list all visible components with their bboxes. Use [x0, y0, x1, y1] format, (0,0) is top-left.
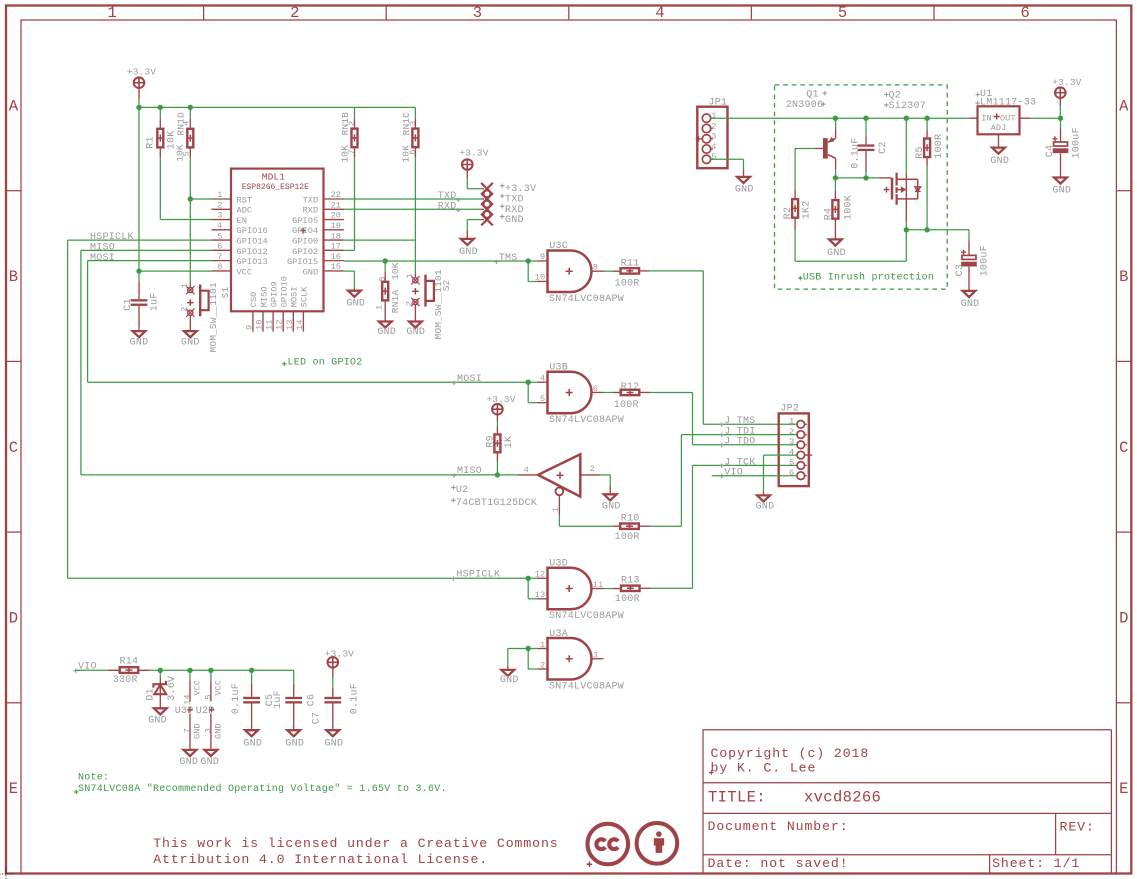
- svg-text:3: 3: [217, 211, 222, 221]
- svg-text:Copyright (c) 2018: Copyright (c) 2018: [711, 746, 870, 761]
- svg-text:12: 12: [535, 570, 545, 580]
- svg-text:100R: 100R: [615, 278, 640, 289]
- svg-text:1: 1: [107, 4, 117, 22]
- svg-text:MOSI: MOSI: [290, 286, 300, 307]
- ground below JP2: [757, 495, 770, 501]
- wire U1 OUT to 3.3V node: [1020, 117, 1031, 119]
- svg-text:SN74LVC08APW: SN74LVC08APW: [549, 415, 624, 426]
- op-amp U3D AND gate SN74LVC08APW: [537, 577, 548, 579]
- svg-text:HSPICLK: HSPICLK: [456, 570, 500, 581]
- resistor R5 100R: [926, 118, 928, 130]
- connector JP1 pin 5: [702, 155, 710, 163]
- svg-text:11: 11: [593, 580, 603, 590]
- svg-text:5: 5: [204, 694, 214, 699]
- svg-text:GND: GND: [214, 723, 224, 739]
- frame row ticks right: [1116, 190, 1131, 192]
- ground below pin15: [348, 291, 361, 297]
- svg-text:R12: R12: [621, 382, 640, 393]
- title block border: [703, 730, 1111, 874]
- svg-text:GND: GND: [459, 247, 478, 258]
- svg-text:S1: S1: [220, 286, 231, 298]
- svg-text:GND: GND: [179, 757, 198, 768]
- resistor RN1C 10K: [414, 107, 416, 119]
- connector JP2 pin 1: [797, 421, 805, 429]
- svg-text:EN: EN: [237, 216, 247, 226]
- svg-text:GND: GND: [500, 675, 519, 686]
- svg-text:GND: GND: [990, 156, 1009, 167]
- diode D1 zener 3.6V: [159, 670, 161, 678]
- svg-text:1uF: 1uF: [273, 690, 284, 709]
- svg-text:MISO: MISO: [457, 466, 482, 477]
- wire Q2 source from rail: [905, 118, 907, 174]
- svg-text:RST: RST: [237, 195, 253, 205]
- svg-text:U3A: U3A: [549, 629, 568, 640]
- svg-text:7: 7: [217, 252, 222, 262]
- label J_TCK: [720, 464, 724, 468]
- svg-text:R10: R10: [621, 514, 640, 525]
- wire 5V rail from JP1: [710, 117, 970, 119]
- svg-text:4: 4: [182, 121, 192, 126]
- svg-text:GND: GND: [200, 757, 219, 768]
- svg-text:USB Inrush protection: USB Inrush protection: [803, 271, 934, 283]
- capacitor C1 1uF: [138, 281, 140, 299]
- svg-text:1: 1: [540, 640, 545, 650]
- svg-text:4: 4: [540, 373, 545, 383]
- svg-text:SN74LVC08A "Recommended Operat: SN74LVC08A "Recommended Operating Voltag…: [78, 783, 447, 795]
- connector JP1 pin 1: [702, 114, 710, 122]
- svg-text:1: 1: [375, 305, 385, 310]
- svg-text:U3D: U3D: [549, 559, 568, 570]
- ground below C6: [287, 730, 300, 736]
- svg-text:GND: GND: [961, 299, 980, 310]
- svg-text:IN: IN: [981, 114, 991, 124]
- svg-text:100K: 100K: [843, 195, 854, 220]
- module bottom pins 9-14: [252, 311, 254, 331]
- CC logo circle: [588, 824, 629, 865]
- svg-text:A: A: [1119, 97, 1129, 115]
- svg-text:ESP8266_ESP12E: ESP8266_ESP12E: [242, 183, 309, 192]
- svg-text:8: 8: [593, 263, 598, 273]
- connector JP1 pin 3: [702, 135, 710, 143]
- svg-text:Si2307: Si2307: [889, 100, 927, 112]
- connector JP1: [697, 107, 727, 169]
- svg-text:SN74LVC08APW: SN74LVC08APW: [549, 294, 624, 305]
- connector JP2 pin 6: [797, 472, 805, 480]
- connector JP2 pin 3: [797, 441, 805, 449]
- svg-text:6: 6: [593, 384, 598, 394]
- svg-text:5: 5: [838, 4, 848, 22]
- svg-text:1K2: 1K2: [801, 201, 812, 220]
- svg-text:Q2: Q2: [889, 91, 902, 102]
- connector JP2 pin 2: [797, 431, 805, 439]
- svg-text:Sheet: 1/1: Sheet: 1/1: [992, 856, 1080, 871]
- ground below RN1A: [379, 322, 392, 328]
- svg-text:LM1117-33: LM1117-33: [980, 98, 1036, 109]
- svg-text:5: 5: [711, 152, 716, 162]
- svg-text:0.1uF: 0.1uF: [850, 138, 861, 169]
- svg-text:GPIO9: GPIO9: [269, 281, 279, 307]
- ground below U3P: [184, 750, 197, 756]
- svg-text:MOSI: MOSI: [457, 374, 482, 385]
- resistor R13 100R: [604, 588, 614, 590]
- ground below R4: [829, 239, 842, 245]
- svg-text:6: 6: [1020, 4, 1030, 22]
- plot origin marker: [0, 868, 13, 879]
- svg-text:MOSI: MOSI: [90, 253, 115, 264]
- wire RN1B to pin17: [354, 157, 356, 250]
- svg-text:R2: R2: [783, 207, 794, 220]
- power +3.3V top left: [134, 77, 145, 88]
- svg-text:12: 12: [275, 320, 285, 330]
- svg-text:TXD: TXD: [303, 195, 319, 205]
- svg-text:10: 10: [255, 320, 265, 330]
- op-amp U3A AND gate SN74LVC08APW: [537, 648, 548, 650]
- svg-text:+3.3V: +3.3V: [1052, 77, 1081, 88]
- svg-text:ADJ: ADJ: [991, 123, 1007, 133]
- svg-text:GND: GND: [735, 185, 754, 196]
- power +3.3V at pads: [462, 159, 473, 170]
- svg-text:GND: GND: [181, 338, 200, 349]
- connector JP1 pin 2: [702, 124, 710, 132]
- svg-text:1: 1: [405, 273, 415, 278]
- svg-text:E: E: [1119, 780, 1129, 798]
- svg-text:Date: not saved!: Date: not saved!: [708, 856, 849, 871]
- label VIO at JP2: [720, 474, 724, 478]
- svg-text:2: 2: [711, 121, 716, 131]
- capacitor C2 0.1uF: [865, 118, 867, 137]
- ground below C1: [133, 331, 146, 337]
- svg-text:GPIO12: GPIO12: [237, 247, 268, 257]
- pad PAD4 GND: [481, 214, 493, 226]
- op-amp U3C AND gate SN74LVC08APW: [537, 260, 548, 262]
- svg-text:22: 22: [331, 190, 341, 200]
- resistor R9 1K: [496, 421, 498, 427]
- wire R13 to JP2 pin5 J_TCK: [651, 587, 693, 589]
- wire Q1 collector node: [833, 175, 838, 180]
- svg-text:1K: 1K: [504, 436, 515, 449]
- frame column ticks top: [203, 5, 205, 20]
- svg-text:This work is licensed under a: This work is licensed under a Creative C…: [153, 836, 558, 851]
- label J_TDI: [720, 433, 724, 437]
- junction bus dots: [136, 105, 141, 110]
- svg-text:RXD: RXD: [303, 206, 319, 216]
- svg-text:U2: U2: [456, 485, 469, 496]
- svg-text:1: 1: [180, 283, 190, 288]
- svg-text:REV:: REV:: [1060, 820, 1095, 835]
- module left pins 1-8: [211, 198, 231, 200]
- svg-text:C2: C2: [878, 141, 889, 154]
- svg-text:6: 6: [408, 149, 418, 154]
- svg-text:2: 2: [590, 464, 595, 474]
- wire pad +3.3V: [466, 178, 468, 188]
- svg-text:VCC: VCC: [237, 267, 253, 277]
- connector JP2: [779, 413, 809, 486]
- svg-text:MDL1: MDL1: [262, 171, 286, 182]
- svg-text:4: 4: [789, 447, 794, 457]
- capacitor C7 0.1uF: [332, 678, 334, 688]
- wire +3.3V bus: [138, 99, 140, 108]
- svg-text:R11: R11: [621, 258, 640, 269]
- svg-text:10K: 10K: [390, 262, 401, 280]
- svg-text:GND: GND: [285, 739, 304, 750]
- svg-text:100uF: 100uF: [980, 245, 991, 276]
- svg-text:GPIO4: GPIO4: [292, 226, 318, 236]
- svg-text:GPIO10: GPIO10: [280, 276, 290, 307]
- svg-text:2: 2: [290, 4, 300, 22]
- svg-text:11: 11: [265, 320, 275, 330]
- resistor RN1D 10K: [189, 107, 191, 118]
- wire RN1C to pin18 and S2: [414, 157, 416, 274]
- svg-text:5: 5: [540, 394, 545, 404]
- svg-text:14: 14: [295, 320, 305, 330]
- ground below C4: [1054, 178, 1067, 184]
- svg-text:74CBT1G125DCK: 74CBT1G125DCK: [456, 498, 537, 509]
- regulator U1 LM1117-33: [969, 117, 977, 119]
- svg-text:TITLE:: TITLE:: [708, 789, 766, 807]
- op-amp U3B AND gate SN74LVC08APW: [537, 381, 548, 383]
- svg-text:+3.3V: +3.3V: [127, 67, 156, 78]
- svg-text:9: 9: [540, 252, 545, 262]
- svg-text:C3: C3: [955, 264, 966, 277]
- svg-text:GND: GND: [243, 739, 262, 750]
- wire R1 to EN pin3: [159, 158, 161, 220]
- svg-text:3: 3: [593, 650, 598, 660]
- svg-text:100R: 100R: [934, 134, 945, 159]
- svg-text:GPIO0: GPIO0: [292, 236, 318, 246]
- svg-text:6: 6: [789, 468, 794, 478]
- pad PAD3 RXD: [481, 204, 493, 216]
- svg-text:2N3906: 2N3906: [786, 100, 824, 111]
- svg-text:3: 3: [203, 728, 213, 733]
- wire VIO rail: [150, 669, 294, 671]
- svg-text:U3C: U3C: [549, 241, 568, 252]
- svg-text:GPIO5: GPIO5: [292, 216, 318, 226]
- wire JP2 pin4 to ground: [764, 454, 798, 456]
- wire U2 pin1 to R10: [558, 495, 560, 515]
- capacitor C3 100uF: [968, 240, 970, 255]
- svg-text:2: 2: [540, 660, 545, 670]
- ground below D1: [154, 708, 167, 714]
- svg-text:16: 16: [331, 252, 341, 262]
- svg-text:C: C: [9, 439, 19, 457]
- wire net VIO left: [73, 669, 77, 673]
- wire net TMS: [344, 260, 537, 262]
- wire R2 feedback to output node: [794, 230, 796, 261]
- wire RN1D to pin1 and S1: [189, 158, 191, 200]
- pad PAD1 +3.3V: [481, 183, 493, 195]
- wire net TXD: [344, 198, 481, 200]
- power +3.3V above R9: [492, 404, 503, 415]
- wire R12 to JP2 pin3 J_TDO: [650, 391, 693, 393]
- svg-text:Attribution 4.0 International: Attribution 4.0 International License.: [153, 852, 488, 867]
- svg-text:GPIO2: GPIO2: [292, 247, 318, 257]
- svg-text:A: A: [9, 97, 19, 115]
- svg-text:+3.3V: +3.3V: [459, 147, 488, 158]
- svg-text:8: 8: [377, 276, 387, 281]
- svg-text:1uF: 1uF: [149, 292, 160, 311]
- svg-text:D: D: [9, 610, 19, 628]
- transistor Q2 SI2307 P-MOSFET: [891, 178, 894, 200]
- label USB Inrush protection: [798, 276, 802, 280]
- resistor R10 100R: [613, 525, 619, 527]
- svg-text:GND: GND: [602, 502, 621, 513]
- svg-text:SN74LVC08APW: SN74LVC08APW: [549, 681, 624, 692]
- svg-text:R1: R1: [146, 136, 157, 149]
- svg-text:GND: GND: [325, 739, 344, 750]
- gate U3A: [526, 646, 531, 651]
- svg-text:GND: GND: [130, 338, 149, 349]
- svg-text:5: 5: [182, 151, 192, 156]
- switch S2 MOM_SW__1101: [413, 278, 418, 283]
- svg-text:2: 2: [789, 427, 794, 437]
- title block Sheet divider: [989, 855, 991, 874]
- wire output node to C3: [906, 229, 969, 231]
- svg-text:21: 21: [331, 200, 341, 210]
- svg-text:VIO: VIO: [724, 468, 743, 479]
- svg-text:0.1uF: 0.1uF: [350, 683, 361, 714]
- svg-text:4: 4: [524, 465, 529, 475]
- ground below C7: [326, 730, 339, 736]
- svg-text:1: 1: [789, 417, 794, 427]
- svg-text:C7: C7: [312, 712, 323, 725]
- buffer U2 74CBT1G125DCK: [518, 474, 538, 476]
- wire U1 ADJ to ground: [998, 134, 1000, 147]
- svg-text:GPIO15: GPIO15: [287, 257, 318, 267]
- svg-text:MOM_SW__1101: MOM_SW__1101: [433, 269, 444, 339]
- connector JP1 pin 4: [702, 145, 710, 153]
- svg-text:xvcd8266: xvcd8266: [804, 789, 881, 807]
- resistor R4 100K: [834, 178, 836, 191]
- resistor RN1A 10K: [384, 261, 386, 272]
- svg-text:9: 9: [244, 325, 254, 330]
- module right pins 22-15: [324, 198, 344, 200]
- title block REV divider: [1055, 813, 1057, 854]
- svg-text:J_TDO: J_TDO: [724, 437, 755, 448]
- svg-text:GND: GND: [827, 248, 846, 259]
- svg-text:3: 3: [711, 132, 716, 142]
- svg-text:14: 14: [183, 694, 193, 704]
- svg-text:4: 4: [655, 4, 665, 22]
- svg-text:R13: R13: [621, 575, 640, 586]
- svg-text:+3.3V: +3.3V: [486, 394, 515, 405]
- svg-text:4: 4: [217, 221, 222, 231]
- svg-text:C6: C6: [306, 694, 317, 707]
- label J_TMS: [720, 422, 724, 426]
- svg-text:JP2: JP2: [780, 404, 799, 415]
- svg-text:SCLK: SCLK: [300, 286, 310, 308]
- power +3.3V top right: [1055, 87, 1066, 98]
- wire U2 pin2 to ground: [580, 474, 600, 476]
- svg-text:3: 3: [408, 121, 418, 126]
- svg-text:VIO: VIO: [78, 662, 97, 673]
- svg-text:E: E: [9, 780, 19, 798]
- svg-text:R14: R14: [120, 656, 139, 667]
- transistor Q1 2N3906: [823, 138, 828, 159]
- wire pin15 to ground: [344, 270, 355, 272]
- label LED on GPIO2: [282, 362, 286, 366]
- ground below U1 ADJ: [992, 148, 1005, 154]
- svg-text:VCC: VCC: [193, 680, 203, 696]
- svg-text:Note:: Note:: [78, 772, 109, 783]
- svg-text:MISO: MISO: [259, 286, 269, 307]
- ground at U3A inputs: [501, 670, 514, 676]
- svg-text:MOM_SW__1101: MOM_SW__1101: [208, 282, 219, 352]
- svg-text:GND: GND: [505, 215, 524, 226]
- svg-text:GPIO13: GPIO13: [237, 257, 268, 267]
- svg-text:3: 3: [473, 4, 483, 22]
- svg-text:U3B: U3B: [549, 362, 568, 373]
- wire VCC vertical to C1: [138, 107, 140, 281]
- wire R10 to JP2 pin2 J_TDI: [651, 525, 682, 527]
- ground below C5: [245, 730, 258, 736]
- module MDL1 ESP8266_ESP12E: [231, 169, 324, 312]
- resistor R12 100R: [604, 391, 614, 393]
- svg-text:RN1A: RN1A: [390, 290, 401, 314]
- svg-text:6: 6: [217, 242, 222, 252]
- power pins U2P: [210, 670, 212, 681]
- svg-text:GND: GND: [1052, 186, 1071, 197]
- USB inrush protection dashed box: [775, 85, 948, 289]
- svg-text:100R: 100R: [614, 400, 639, 411]
- svg-text:10: 10: [535, 273, 545, 283]
- svg-text:ADC: ADC: [237, 206, 253, 216]
- power pins U3P: [189, 670, 191, 681]
- CC plus mark: [587, 861, 593, 867]
- pad PAD2 TXD: [481, 193, 493, 205]
- svg-text:18: 18: [331, 231, 341, 241]
- connector JP2 pin 4: [797, 451, 805, 459]
- wire Q2 drain to output node: [905, 199, 907, 222]
- svg-text:20: 20: [331, 211, 341, 221]
- resistor R1 10K: [159, 107, 161, 118]
- svg-text:1: 1: [711, 111, 716, 121]
- connector JP2 pin 5: [797, 462, 805, 470]
- svg-text:0.1uF: 0.1uF: [231, 683, 242, 714]
- svg-text:2: 2: [217, 200, 222, 210]
- svg-text:5: 5: [217, 231, 222, 241]
- resistor R11 100R: [604, 270, 614, 272]
- svg-text:B: B: [1119, 268, 1129, 286]
- svg-text:100R: 100R: [615, 594, 640, 605]
- capacitor C6 1uF: [293, 670, 295, 684]
- svg-text:+3.3V: +3.3V: [325, 649, 354, 660]
- svg-text:15: 15: [331, 262, 341, 272]
- power +3.3V above C7: [328, 657, 339, 668]
- svg-text:C4: C4: [1045, 145, 1056, 158]
- CC attribution logo: [637, 823, 678, 864]
- svg-text:D1: D1: [146, 688, 157, 701]
- ground below U2P: [205, 750, 218, 756]
- svg-text:GND: GND: [406, 327, 425, 338]
- svg-text:R9: R9: [485, 435, 496, 448]
- label J_TDO: [720, 443, 724, 447]
- svg-text:GND: GND: [193, 723, 203, 739]
- svg-text:1: 1: [217, 190, 222, 200]
- svg-text:GND: GND: [303, 267, 319, 277]
- wire pad GND: [467, 219, 481, 221]
- svg-text:LED on GPIO2: LED on GPIO2: [288, 357, 363, 368]
- ground below pads: [461, 239, 474, 245]
- svg-text:B: B: [9, 268, 19, 286]
- svg-text:R5: R5: [915, 146, 926, 159]
- ground below S2: [409, 322, 422, 328]
- svg-text:13: 13: [285, 320, 295, 330]
- svg-text:Document Number:: Document Number:: [708, 819, 849, 834]
- wire R11 to JP2 pin1 J_TMS: [650, 270, 704, 272]
- svg-text:7: 7: [182, 728, 192, 733]
- svg-text:2: 2: [405, 301, 415, 306]
- svg-text:4: 4: [711, 142, 716, 152]
